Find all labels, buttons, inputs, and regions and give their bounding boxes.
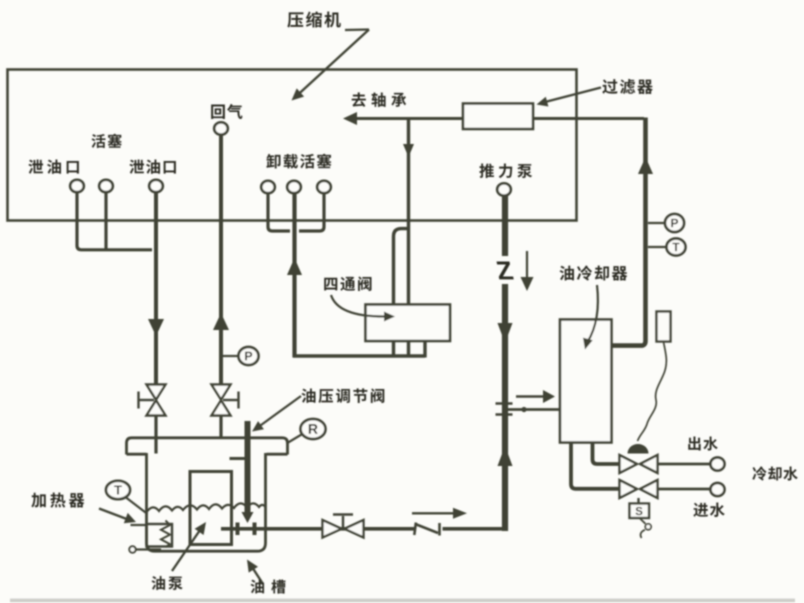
solenoid box S <box>630 504 650 519</box>
valve W1 right wedge <box>640 455 658 473</box>
label water out <box>688 436 700 450</box>
regulator leader arrow <box>259 396 301 427</box>
pipe four-way bottom header <box>293 354 425 357</box>
pipe unload center down <box>292 193 296 358</box>
port circle piston <box>99 180 113 192</box>
gauge P2 letter <box>671 219 678 227</box>
stub to gauge T2 <box>648 246 667 248</box>
oil pump leader arrow <box>172 532 199 572</box>
label drain-port-1 <box>28 159 43 173</box>
pipe thrust upper <box>502 196 508 257</box>
valve V1 upper wedge <box>147 385 166 400</box>
heater box <box>147 524 173 547</box>
flow arrow small down on bearing branch <box>403 144 414 157</box>
pipe W2 to inlet circle <box>658 488 711 491</box>
break symbol Z letter <box>496 262 514 280</box>
filter body F1 <box>463 104 533 130</box>
valve V1 lower wedge <box>147 400 166 415</box>
port circle unload-2 <box>287 181 301 193</box>
pipe U-bend to four-way valve <box>394 229 409 305</box>
solenoid letter S <box>636 507 643 515</box>
gauge P1 letter <box>245 352 252 361</box>
label oil tank <box>251 580 265 594</box>
union tick 1 <box>236 523 240 536</box>
pipe tank outlet <box>221 527 415 531</box>
label oil pressure regulating valve <box>302 388 316 402</box>
port circle unload-3 <box>317 181 331 193</box>
regulator rod (oil pressure regulating valve) <box>245 421 251 513</box>
label four-way valve <box>324 278 337 291</box>
flow arrow up on return-gas line <box>213 313 229 330</box>
oil tank leader arrow <box>252 567 263 584</box>
pipe four-way stub B <box>407 340 410 356</box>
gauge T2 letter <box>672 243 679 251</box>
oil cooler body HX1 <box>560 320 612 443</box>
pipe branch to cooler <box>508 408 560 411</box>
pipe bearing branch down <box>407 119 410 305</box>
water outlet port circle <box>711 458 725 471</box>
label heater <box>31 493 45 508</box>
label compressor <box>287 12 303 27</box>
valve V2 stem right <box>223 399 238 401</box>
flow arrow up on thrust pipe <box>498 446 513 466</box>
pipe bottom to riser corner <box>443 527 508 531</box>
flow arrow up on right riser <box>638 157 653 174</box>
union tick 2 <box>253 523 257 536</box>
tank lid (hat) <box>127 438 288 455</box>
pipe main left line down to valve V1 <box>154 192 158 385</box>
gauge T1 letter <box>114 486 122 495</box>
compressor body outline <box>8 70 577 221</box>
label to-bearing <box>352 92 366 106</box>
gauge R letter <box>309 424 318 434</box>
label drain-port-2 <box>129 159 144 173</box>
oil level wavy line <box>147 503 265 511</box>
manifold unload left leg <box>268 193 290 231</box>
oil cooler leader arrow <box>588 285 598 342</box>
valve W1 left wedge <box>620 455 638 473</box>
label oil pump <box>152 576 166 590</box>
flow arrow down on left line <box>148 319 164 336</box>
heater pointer arrow <box>99 509 128 520</box>
water inlet port circle <box>711 483 725 496</box>
pipe V1 into lid <box>154 416 157 454</box>
pipe drain-1 down with elbow <box>77 192 152 250</box>
gauge T1 leader line <box>126 498 148 515</box>
port circle drain-2 <box>149 180 163 192</box>
pipe W1 to outlet circle <box>658 463 711 466</box>
gauge T2 bubble <box>667 239 686 256</box>
valve V3 right wedge <box>345 520 364 538</box>
heater lead upper <box>131 524 147 526</box>
flow arrow up on unload line <box>287 258 302 275</box>
label filter <box>602 79 617 94</box>
flow arrow down on thrust pipe <box>498 323 513 343</box>
solenoid pigtail lead <box>640 519 646 524</box>
four-way valve leader arrow <box>331 295 386 317</box>
flange tick upper <box>496 402 513 405</box>
label piston <box>92 134 106 148</box>
flow arrow right on bottom line <box>412 512 454 514</box>
flow arrow thin down beside Z <box>526 251 528 279</box>
port circle unload-1 <box>261 181 275 193</box>
tank body walls <box>147 453 266 551</box>
pipe to-bearing left segment <box>355 117 464 120</box>
valve W2 right wedge <box>640 480 658 498</box>
heater element zigzag <box>161 521 170 547</box>
pipe piston down <box>104 192 107 250</box>
stub to gauge P1 <box>223 355 239 357</box>
pipe four-way stub C <box>423 340 426 358</box>
pipe filter to right riser <box>532 117 644 120</box>
flow arrow right into cooler <box>516 395 546 397</box>
label return-gas <box>211 105 225 119</box>
label cooling water <box>752 466 766 480</box>
sensor bulb housing <box>657 312 671 342</box>
pipe break symbol <box>414 523 416 536</box>
pipe cooler stub to valve W1 <box>593 442 620 464</box>
valve V1 stem left <box>140 399 155 401</box>
pipe V2 into lid <box>219 416 222 439</box>
junction dot on branch <box>521 407 526 412</box>
label thrust pump <box>479 163 494 178</box>
pipe right riser <box>611 118 646 346</box>
flange tick lower <box>496 413 513 416</box>
oil pump chamber <box>190 472 232 545</box>
heater lead lower with terminal circle <box>129 546 135 552</box>
gauge R leader line <box>287 435 302 444</box>
pipe four-way stub A <box>392 340 395 356</box>
four-way valve body U1 <box>366 305 451 342</box>
gauge P1 bubble <box>239 347 259 365</box>
valve V2 upper wedge <box>212 385 231 400</box>
pipe thrust main <box>502 284 508 531</box>
port circle drain-1 <box>70 180 84 192</box>
filter leader arrow <box>545 88 601 103</box>
flow arrow left to bearing <box>343 112 357 125</box>
gauge T1 bubble <box>106 481 130 499</box>
regulator T-bar <box>230 457 247 460</box>
pipe return-gas down to valve V2 <box>219 135 223 386</box>
label unloading piston <box>266 154 280 169</box>
manifold unload right leg <box>299 193 324 231</box>
port circle thrust-pump <box>497 183 511 195</box>
label water in <box>693 503 708 517</box>
solenoid stem <box>637 498 639 504</box>
valve W2 left wedge <box>620 480 638 498</box>
bottom scan band <box>10 599 795 603</box>
gauge R bubble <box>301 419 326 439</box>
port circle return-gas <box>214 122 228 134</box>
label oil cooler <box>560 266 574 281</box>
valve V3 stem up <box>342 516 344 527</box>
gauge P2 bubble <box>665 214 684 232</box>
label compressor leader <box>345 28 369 31</box>
pipe cooler stub to valve W2 <box>571 442 619 489</box>
valve V2 lower wedge <box>212 400 231 415</box>
capillary tube <box>638 342 667 441</box>
stub to gauge P2 <box>648 222 666 224</box>
valve V3 left wedge <box>323 520 342 538</box>
valve W1 dome actuator <box>628 444 649 454</box>
